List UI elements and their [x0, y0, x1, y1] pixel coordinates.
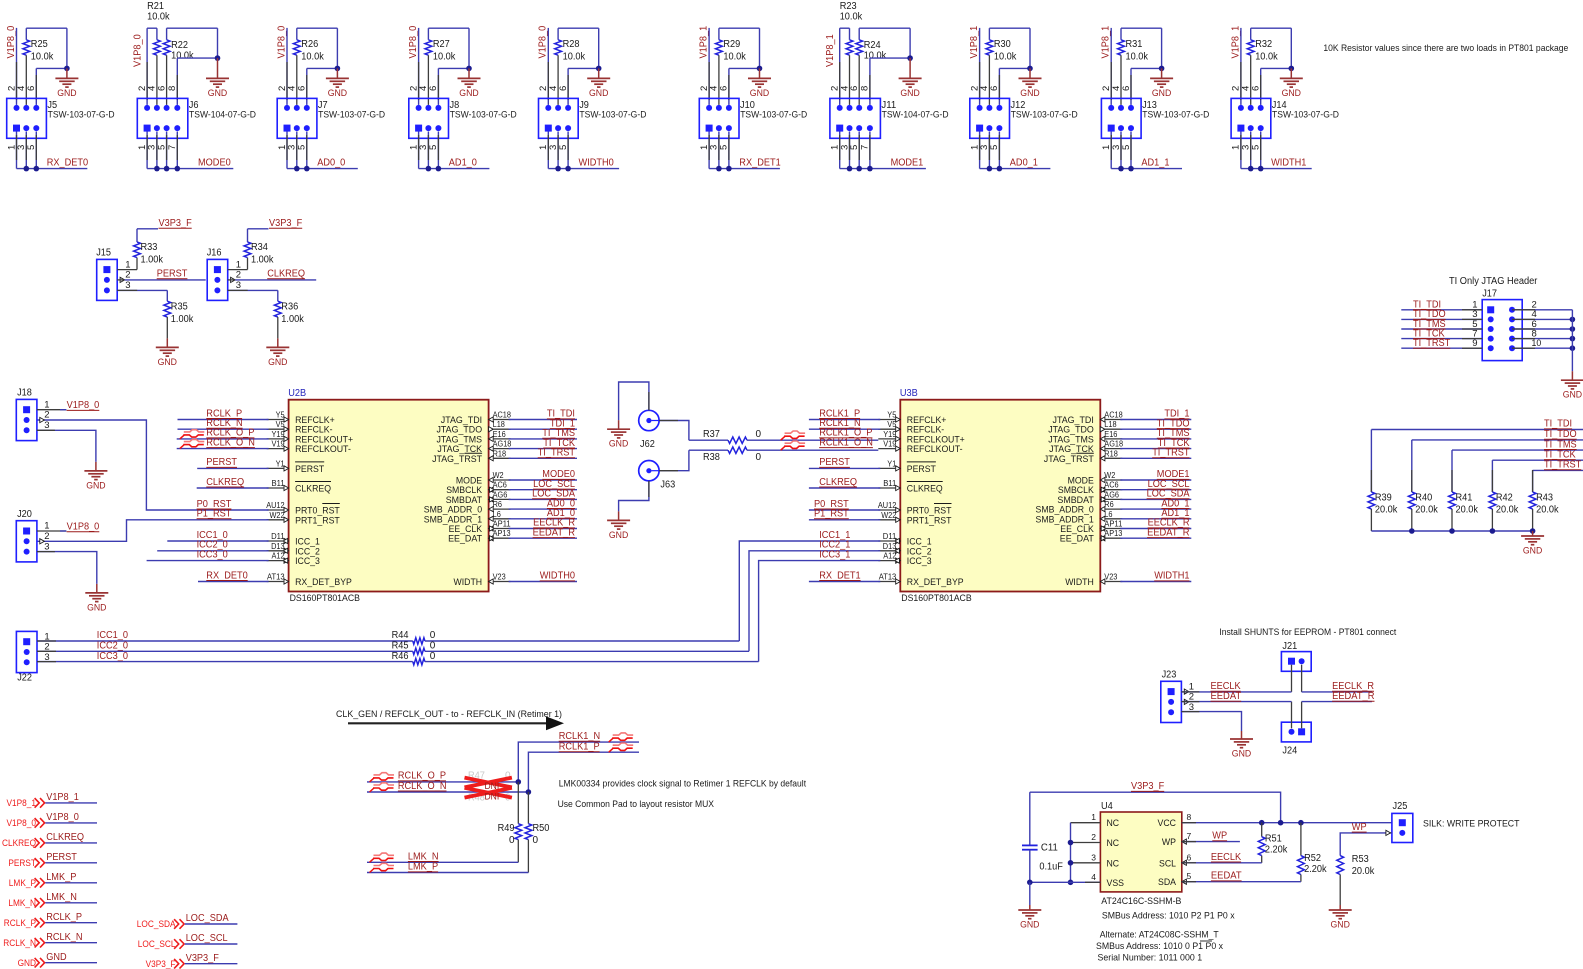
wire CLKREQ to U3B [809, 487, 880, 489]
svg-text:AP11: AP11 [1104, 520, 1123, 529]
junction on J17 ground bus [1570, 345, 1576, 351]
svg-text:10.0k: 10.0k [840, 12, 863, 23]
svg-text:6: 6 [1121, 86, 1132, 91]
wire TI_TCK to J17 pin 7 [1401, 338, 1482, 340]
resistor R29 10.0k [718, 28, 720, 40]
svg-text:6: 6 [297, 86, 308, 91]
svg-text:GND: GND [18, 958, 37, 968]
svg-text:AU12: AU12 [878, 501, 897, 510]
diff pair marker LMK_N [370, 858, 375, 862]
junction U4 NC bus pin2 [1068, 840, 1074, 846]
junction on J17 ground bus [1570, 317, 1576, 323]
wire TI_TDO to R40 [1412, 439, 1583, 441]
junction at ground column of J12 [1027, 66, 1033, 72]
svg-text:DS160PT801ACB: DS160PT801ACB [901, 593, 971, 604]
wire EEDAT_R right of J24 [1302, 701, 1372, 703]
wire U4 VSS to ground rail [1030, 881, 1101, 883]
svg-text:GND: GND [86, 480, 106, 491]
svg-text:WIDTH0: WIDTH0 [579, 157, 615, 168]
svg-text:ICC_3: ICC_3 [907, 556, 932, 567]
svg-text:0: 0 [430, 651, 436, 662]
svg-text:7: 7 [167, 145, 178, 150]
svg-text:V1P8_1: V1P8_1 [1230, 25, 1241, 58]
wire RCLK_O_P to U2B [177, 438, 269, 440]
wire V1P8_1 to pin2 of J14 [1240, 28, 1242, 105]
svg-text:6: 6 [849, 86, 860, 91]
svg-text:CLKREQ: CLKREQ [295, 484, 331, 495]
svg-text:V1P8_0: V1P8_0 [67, 522, 100, 533]
wire PERST to U3B [809, 467, 880, 469]
svg-text:V1P8_0: V1P8_0 [67, 400, 100, 411]
wire J17 pin 2 to ground bus [1512, 309, 1572, 311]
svg-text:J22: J22 [17, 672, 32, 683]
svg-text:L18: L18 [493, 420, 506, 429]
svg-text:0.1uF: 0.1uF [1039, 862, 1063, 873]
svg-text:ICC_3: ICC_3 [295, 556, 320, 567]
wire pin2 of J15 to net PERST [117, 279, 125, 281]
wire P1_RST to U3B [809, 519, 880, 521]
svg-text:RCLK1_N: RCLK1_N [559, 731, 600, 742]
svg-text:C11: C11 [1041, 842, 1058, 853]
svg-text:R18: R18 [493, 449, 507, 458]
diff pair marker RCLK1_O_N [781, 446, 786, 450]
svg-text:GND: GND [1282, 88, 1302, 99]
svg-text:Y19: Y19 [272, 430, 286, 439]
wire EECLK_R right of J21 [1302, 691, 1372, 693]
wire TI_TCK from U3B [1120, 448, 1191, 450]
ground symbol for J6 [217, 58, 219, 78]
header J9 TSW-103-07-G-D [539, 98, 579, 138]
svg-text:R34: R34 [251, 242, 268, 253]
wire EECLK from U4 SCL to R51 [1182, 862, 1262, 864]
wire WIDTH1 from U3B [1120, 581, 1191, 583]
wire ICC3_1 from J22 riser to U3B [759, 561, 881, 662]
wire ICC2_0 from J22 pin 2 [37, 650, 413, 652]
svg-text:V1P8_0: V1P8_0 [6, 25, 17, 58]
header J8 TSW-103-07-G-D [409, 98, 449, 138]
svg-text:RCLK_O_N: RCLK_O_N [398, 781, 447, 792]
svg-text:AC18: AC18 [1104, 411, 1123, 420]
resistor R27 10.0k [427, 28, 429, 40]
svg-text:1.00k: 1.00k [251, 255, 274, 266]
wire J62 center to R37 [659, 421, 689, 441]
svg-text:SMBus Address: 1010 P2 P1 P0: SMBus Address: 1010 P2 P1 P0 x [1102, 910, 1235, 920]
wire C11 to ground [1029, 882, 1031, 905]
junction RCLK_O_N R50 [526, 789, 532, 795]
svg-text:10.0k: 10.0k [994, 52, 1017, 63]
wire AD1_0 from U2B [509, 518, 577, 520]
wire V1P8_1 to pin2 of J13 [1110, 28, 1112, 105]
wire R24 top rail to ground column of J11 [859, 27, 910, 29]
ground symbol for R39-R43 [1532, 531, 1534, 536]
svg-text:GND: GND [87, 602, 107, 613]
svg-text:EE_DAT: EE_DAT [1060, 534, 1094, 545]
wire R31 top rail to ground column [1121, 27, 1162, 29]
svg-text:CLKREQ: CLKREQ [267, 269, 305, 280]
svg-text:TI Only JTAG Header: TI Only JTAG Header [1449, 276, 1538, 287]
wire U4 NC bus [1071, 822, 1101, 824]
svg-text:TI_TRST: TI_TRST [1413, 338, 1450, 349]
svg-text:JTAG_TRST: JTAG_TRST [1044, 454, 1094, 465]
svg-text:GND: GND [609, 530, 629, 541]
svg-text:10.0k: 10.0k [563, 52, 586, 63]
diff pair marker RCLK_O_P mid [370, 778, 375, 782]
resistor R44 0 ohm [413, 638, 425, 644]
svg-text:R26: R26 [301, 39, 318, 50]
wire pin6 of J14 to ground [1261, 67, 1292, 69]
junction U4 NC bus pin3 [1068, 860, 1074, 866]
junction on R39-R43 ground bus [1449, 528, 1455, 534]
wire J21 pin2 to EECLK_R [1301, 665, 1303, 692]
diff pair marker RCLK1_O_P [781, 436, 786, 440]
wire TI_TRST from U2B [509, 457, 577, 459]
coax connector J62 [639, 410, 659, 430]
ground symbol for J13 [1161, 68, 1163, 78]
svg-text:V1P8_1: V1P8_1 [969, 25, 980, 58]
DNI cross over R48 [465, 788, 512, 798]
wire R25 top rail to ground column [26, 27, 67, 29]
wire R29 top rail to ground column [719, 27, 760, 29]
svg-text:8: 8 [1187, 812, 1192, 822]
resistor R38 0 ohm [689, 449, 728, 451]
svg-text:TSW-103-07-G-D: TSW-103-07-G-D [1142, 110, 1209, 120]
resistor R24 10.0k [858, 28, 860, 40]
svg-text:RCLK1_O_N: RCLK1_O_N [819, 437, 873, 448]
svg-text:TI_TRST: TI_TRST [1544, 460, 1581, 471]
svg-text:AG6: AG6 [493, 490, 508, 499]
wire pin6 of J10 to ground [729, 67, 760, 69]
svg-text:5: 5 [1187, 871, 1192, 881]
svg-text:6: 6 [719, 86, 730, 91]
svg-text:J62: J62 [640, 439, 655, 450]
junction at ground column of J7 [335, 66, 341, 72]
svg-text:R27: R27 [433, 39, 450, 50]
svg-text:LOC_SCL: LOC_SCL [186, 933, 228, 944]
svg-text:MODE1: MODE1 [891, 157, 924, 168]
junction on R39-R43 ground bus [1530, 528, 1536, 534]
diff pair marker RCLK_O_N [180, 445, 185, 449]
wire CLKREQ to U2B [197, 487, 269, 489]
arrow pin2 of J15 [120, 277, 125, 282]
svg-text:3: 3 [125, 280, 130, 291]
resistor R30 10.0k [988, 28, 990, 40]
wire AD1_1 rail of J13 [1110, 132, 1112, 169]
svg-text:B11: B11 [883, 479, 897, 488]
svg-text:GND: GND [158, 357, 178, 368]
svg-text:V3P3_F: V3P3_F [1131, 781, 1164, 792]
wire RCLK_O_N mid [367, 791, 528, 793]
svg-text:WP: WP [1162, 837, 1176, 848]
wire J17 pin 4 to ground bus [1512, 318, 1572, 320]
svg-text:SDA: SDA [1158, 877, 1177, 888]
svg-text:LMK_P: LMK_P [408, 862, 439, 873]
ground symbol for C11 [1029, 905, 1031, 910]
svg-text:WIDTH0: WIDTH0 [540, 571, 576, 582]
wire WIDTH0 from U2B [509, 581, 577, 583]
wire J24 pin2 to EEDAT_R [1301, 702, 1303, 729]
svg-text:J63: J63 [660, 480, 675, 491]
svg-text:R6: R6 [493, 500, 503, 509]
wire pin6 of J9 to ground [568, 67, 599, 69]
svg-text:AD0_1: AD0_1 [1010, 157, 1039, 168]
svg-text:5: 5 [156, 145, 167, 150]
svg-text:RCLK1_P: RCLK1_P [559, 742, 600, 753]
svg-text:AC6: AC6 [1104, 481, 1119, 490]
wire MODE1 rail of J11 [839, 132, 841, 169]
svg-text:J23: J23 [1162, 670, 1177, 681]
svg-text:RX_DET1: RX_DET1 [819, 570, 861, 581]
svg-text:EEDAT_R: EEDAT_R [1332, 691, 1374, 702]
wire RCLK_O_P mid [367, 781, 518, 783]
svg-text:JTAG_TRST: JTAG_TRST [432, 454, 482, 465]
wire TI_TMS to J17 pin 5 [1401, 328, 1482, 330]
svg-text:CLKREQ: CLKREQ [819, 477, 857, 488]
svg-text:V1P8_0: V1P8_0 [276, 25, 287, 58]
wire J20 pin1 to V1P8_0 [37, 530, 66, 532]
resistor R42 20.0k [1489, 492, 1496, 509]
svg-text:AD1_1: AD1_1 [1141, 157, 1170, 168]
svg-text:RX_DET0: RX_DET0 [47, 157, 89, 168]
wire RCLK_O_N to U2B [177, 448, 269, 450]
svg-text:EE_DAT: EE_DAT [448, 534, 482, 545]
svg-text:AG18: AG18 [1104, 440, 1123, 449]
wire TI_TDO from U3B [1120, 428, 1191, 430]
svg-text:GND: GND [589, 88, 609, 99]
resistor R31 10.0k [1120, 28, 1122, 40]
wire V3P3_F rail to U4 VCC [1030, 792, 1281, 823]
svg-text:TI_TRST: TI_TRST [1152, 448, 1189, 459]
wire J17 pin 6 to ground bus [1512, 328, 1572, 330]
arrow J23 pin2 [1184, 699, 1189, 704]
svg-text:TSW-103-07-G-D: TSW-103-07-G-D [450, 110, 517, 120]
wire RX_DET1 rail of J10 [708, 132, 710, 169]
svg-text:6: 6 [989, 86, 1000, 91]
header J24 [1281, 722, 1311, 742]
wire J20 pin3 to ground [37, 552, 97, 584]
resistor R22 10.0k [166, 28, 168, 40]
header J13 TSW-103-07-G-D [1101, 98, 1141, 138]
svg-text:NC: NC [1107, 858, 1120, 869]
wire AD0_1 rail of J12 [979, 132, 981, 169]
svg-text:P1_RST: P1_RST [197, 509, 232, 520]
wire AD0_0 from U2B [509, 508, 577, 510]
svg-text:D11: D11 [883, 532, 897, 541]
wire J18 pin1 to V1P8_0 [37, 409, 66, 411]
arrow J20 pin2 [40, 539, 45, 544]
junction at ground column of J5 [64, 66, 70, 72]
svg-text:20.0k: 20.0k [1536, 505, 1559, 516]
svg-text:R46: R46 [392, 651, 409, 662]
svg-text:J15: J15 [96, 248, 111, 259]
svg-text:GND: GND [1331, 920, 1351, 931]
svg-text:R42: R42 [1496, 493, 1513, 504]
svg-text:W22: W22 [881, 511, 897, 520]
wire pin6 of J12 to ground [999, 67, 1030, 69]
svg-text:5: 5 [989, 145, 1000, 150]
wire TI_TDI from U2B [509, 419, 577, 421]
svg-text:R36: R36 [281, 302, 298, 313]
svg-text:4: 4 [1091, 872, 1096, 882]
svg-text:TI_TDI: TI_TDI [1544, 419, 1572, 430]
svg-text:5: 5 [26, 145, 37, 150]
wire EECLK_R from U2B [509, 528, 577, 530]
svg-text:V1P8_1: V1P8_1 [825, 34, 836, 67]
wire J62 shield to ground [619, 382, 649, 420]
svg-text:R52: R52 [1304, 853, 1321, 864]
svg-text:R39: R39 [1375, 493, 1392, 504]
svg-text:TSW-103-07-G-D: TSW-103-07-G-D [48, 110, 115, 120]
svg-text:GND: GND [609, 439, 629, 450]
wire RCLK_P to U2B [178, 419, 269, 421]
svg-text:V19: V19 [883, 440, 897, 449]
resistor R53 20.0k [1337, 856, 1344, 875]
svg-text:WP: WP [1212, 831, 1227, 842]
wire RCLK1_P to U3B [809, 419, 880, 421]
svg-text:10.0k: 10.0k [171, 50, 194, 61]
wire MODE1 from U3B [1120, 479, 1191, 481]
wire LMK_P [367, 872, 528, 874]
svg-text:2: 2 [236, 270, 241, 281]
svg-text:U2B: U2B [288, 388, 306, 399]
svg-text:LMK00334 provides clock signal: LMK00334 provides clock signal to Retime… [559, 779, 807, 789]
svg-text:LMK_N: LMK_N [46, 892, 77, 903]
svg-text:2: 2 [125, 270, 130, 281]
svg-text:AP13: AP13 [493, 529, 511, 538]
svg-text:PERST: PERST [295, 464, 324, 475]
svg-text:PERST: PERST [206, 457, 237, 468]
resistor R51 2.20k [1261, 823, 1263, 837]
wire MODE0 rail of J6 [146, 132, 148, 169]
header J12 TSW-103-07-G-D [970, 98, 1010, 138]
wire ICC1_1 from J22 riser to U3B [739, 541, 880, 641]
svg-text:PRT1_RST: PRT1_RST [907, 515, 952, 526]
wire J21 pin1 to EECLK [1291, 665, 1293, 692]
resistor R26 10.0k [296, 28, 298, 40]
coax connector J63 [639, 461, 659, 481]
svg-text:ICC3_0: ICC3_0 [197, 549, 229, 560]
wire LOC_SDA from U2B [509, 498, 577, 500]
svg-text:V23: V23 [1104, 573, 1118, 582]
wire TI_TCK to R42 [1492, 459, 1583, 461]
svg-text:RX_DET_BYP: RX_DET_BYP [907, 577, 964, 588]
junction at ground column of J10 [757, 66, 763, 72]
ground symbol for J20 [96, 584, 98, 593]
wire LOC_SDA from U3B [1120, 498, 1191, 500]
svg-text:GND: GND [57, 88, 77, 99]
resistor R49 0 ohm [517, 782, 519, 824]
resistor R50 0 ohm [527, 792, 529, 824]
svg-text:AT24C16C-SSHM-B: AT24C16C-SSHM-B [1101, 896, 1181, 907]
header J14 TSW-103-07-G-D [1231, 98, 1271, 138]
svg-text:2.20k: 2.20k [1265, 845, 1288, 856]
wire J17 pin 10 to ground bus [1512, 347, 1572, 349]
svg-text:0: 0 [756, 429, 762, 440]
wire EEDAT from J23 pin2 [1181, 701, 1291, 703]
svg-text:TSW-103-07-G-D: TSW-103-07-G-D [1011, 110, 1078, 120]
resistor R35 1.00k [164, 301, 171, 317]
svg-text:GND: GND [900, 88, 920, 99]
wire LOC_SCL from U2B [509, 489, 577, 491]
svg-text:PERST: PERST [907, 464, 936, 475]
svg-text:AU12: AU12 [266, 501, 285, 510]
wire TDI_1 from U3B [1120, 419, 1191, 421]
svg-text:R37: R37 [703, 429, 720, 440]
svg-text:REFCLKOUT-: REFCLKOUT- [907, 444, 963, 455]
wire TI_TRST to J17 pin 9 [1401, 347, 1482, 349]
svg-text:LOC_SDA: LOC_SDA [186, 913, 229, 924]
svg-text:RCLK_P: RCLK_P [4, 918, 36, 928]
svg-text:L6: L6 [493, 510, 502, 519]
svg-text:6: 6 [1251, 86, 1262, 91]
svg-text:5: 5 [719, 145, 730, 150]
svg-text:Y19: Y19 [883, 430, 897, 439]
svg-text:GND: GND [1152, 88, 1172, 99]
svg-text:Alternate: AT24C08C-SSHM_T: Alternate: AT24C08C-SSHM_T [1100, 929, 1219, 939]
wire LMK_N [367, 861, 518, 863]
wire V1P8_0 to pin2 of J6 [146, 28, 148, 105]
svg-text:W2: W2 [1104, 471, 1116, 480]
svg-text:5: 5 [1251, 145, 1262, 150]
svg-text:R53: R53 [1352, 854, 1369, 865]
svg-text:V1P8_0: V1P8_0 [133, 34, 144, 67]
wire ICC2_0 stub to U2B [157, 550, 268, 552]
svg-text:TSW-103-07-G-D: TSW-103-07-G-D [740, 110, 807, 120]
svg-text:3: 3 [1091, 852, 1096, 862]
svg-text:PERST: PERST [819, 457, 850, 468]
svg-text:V1P8_0: V1P8_0 [538, 25, 549, 58]
svg-text:10.0k: 10.0k [31, 52, 54, 63]
svg-text:0: 0 [509, 835, 515, 846]
svg-text:6: 6 [156, 86, 167, 91]
ground symbol for J7 [336, 68, 338, 78]
svg-text:R32: R32 [1255, 39, 1272, 50]
wire J24 pin1 to EEDAT [1291, 702, 1293, 729]
svg-text:J20: J20 [17, 509, 32, 520]
svg-text:6: 6 [1187, 852, 1192, 862]
svg-text:V1P8_0: V1P8_0 [7, 818, 37, 828]
svg-text:10.0k: 10.0k [723, 52, 746, 63]
wire V1P8_0 to pin2 of J7 [286, 28, 288, 105]
wire P0_RST to U3B [809, 509, 880, 511]
junction RCLK_O_P R49 [516, 779, 522, 785]
svg-text:GND: GND [1020, 920, 1040, 931]
wire J18 pin3 to ground [37, 430, 96, 462]
svg-text:NC: NC [1107, 818, 1120, 829]
wire ICC3_0 stub to U2B [147, 560, 269, 562]
wire RCLK1_N [518, 742, 639, 782]
wire V1P8_0 to pin2 of J9 [547, 28, 549, 105]
wire TI_TDO to J17 pin 3 [1401, 318, 1482, 320]
resistor R37 0 ohm [689, 439, 728, 441]
svg-text:RCLK_N: RCLK_N [3, 938, 36, 948]
svg-text:1.00k: 1.00k [171, 314, 194, 325]
resistor R43 20.0k [1529, 492, 1536, 509]
svg-text:Serial Number: 1011 000 1: Serial Number: 1011 000 1 [1098, 952, 1203, 962]
svg-text:GND: GND [208, 88, 228, 99]
wire AD0_0 rail of J7 [286, 132, 288, 169]
wire RX_DET1 to U3B [809, 581, 880, 583]
wire RX_DET0 to U2B [198, 581, 269, 583]
junction at ground column of J6 [215, 55, 221, 61]
diff pair marker RCLK_O_N mid [370, 788, 375, 792]
svg-text:5: 5 [849, 145, 860, 150]
ground symbol for J11 [909, 58, 911, 78]
resistor R33 1.00k [134, 242, 141, 258]
wire pin1 of J16 to resistor R34 [228, 269, 248, 271]
svg-text:5: 5 [558, 145, 569, 150]
svg-text:3: 3 [236, 280, 241, 291]
svg-text:RCLK_O_N: RCLK_O_N [206, 437, 255, 448]
